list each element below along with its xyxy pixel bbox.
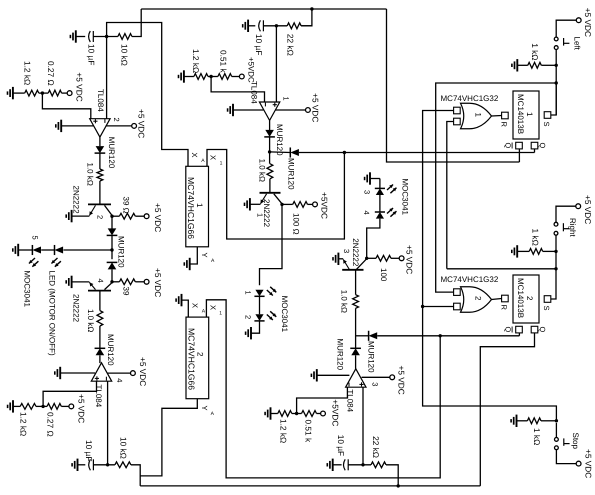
- op1 input signs: [93, 119, 105, 123]
- svg-text:1.0 kΩ: 1.0 kΩ: [86, 309, 95, 332]
- label pin1 op2: [281, 97, 290, 101]
- label MUR120 qline: [287, 158, 296, 190]
- wire Q3 collector down: [260, 204, 283, 285]
- svg-text:1: 1: [256, 213, 265, 217]
- emission arrows MOC2 LED2: [267, 311, 276, 320]
- wire to term bl: [61, 404, 73, 409]
- wire right switch S2 line: [447, 268, 556, 270]
- label +5VDC div op2: [247, 57, 256, 83]
- label pin2 Q1: [95, 215, 104, 219]
- IC MC14013B #2 box: [513, 275, 539, 323]
- svg-text:2: 2: [525, 296, 534, 301]
- resistor 0.27 (row bl): [47, 404, 61, 410]
- ground (op2): [228, 104, 264, 116]
- wire right switch down: [555, 235, 557, 268]
- LED A (MOC3041 pin5): [32, 245, 41, 255]
- wire cap to node bl: [93, 464, 115, 466]
- svg-text:Left: Left: [573, 37, 582, 51]
- wire S1 to switch: [551, 83, 556, 115]
- IC MC74VHC1G66 #1 box: [186, 166, 209, 247]
- emission arrows LED A: [29, 258, 38, 267]
- label pin3 Q4: [342, 249, 351, 253]
- label Right: [568, 218, 577, 237]
- wire op2 out: [269, 120, 271, 130]
- ground (10uF op4): [327, 459, 341, 471]
- ground (stop sw): [511, 415, 527, 427]
- op4 pin3 wire and terminal: [362, 375, 395, 380]
- label 1kOhm stop: [532, 428, 542, 445]
- node div op4 (dot): [292, 412, 302, 415]
- label MOC3041 mid: [280, 296, 289, 333]
- svg-text:MC74VHC1G66: MC74VHC1G66: [186, 328, 196, 390]
- label 1.2kOhm row1: [22, 61, 32, 85]
- wire S2 to switch: [551, 269, 556, 299]
- svg-text:MOC3041: MOC3041: [401, 179, 410, 216]
- svg-text:MC14013B: MC14013B: [516, 278, 525, 318]
- label 1kOhm right: [531, 229, 541, 246]
- node divider bl (dot): [36, 405, 47, 408]
- svg-text:1: 1: [195, 203, 204, 208]
- transistor Q4 2N2222 base bar: [342, 269, 363, 271]
- wire cap to node op4: [348, 464, 371, 466]
- node divider1 (dot): [39, 91, 48, 94]
- label 1.0kOhm Q2: [86, 309, 95, 332]
- label pin4 Q2: [96, 279, 105, 283]
- label X1 ic2: [208, 305, 222, 317]
- wire OR1A stop vertical: [423, 111, 557, 421]
- label 100 Q4: [379, 268, 388, 282]
- wire res to Q3 base: [269, 179, 271, 193]
- resistor 0.51k (op2 div): [218, 74, 232, 80]
- svg-text:X: X: [208, 305, 217, 310]
- svg-text:1.2 kΩ: 1.2 kΩ: [22, 61, 32, 85]
- label 10kOhm bl: [118, 437, 128, 459]
- wire left switch down: [555, 50, 557, 115]
- node Q1 collector (dot): [110, 215, 113, 218]
- label +5VDC op1: [137, 109, 147, 138]
- svg-text:4: 4: [115, 378, 124, 382]
- wire cap to node: [93, 36, 118, 38]
- op3 input signs: [95, 376, 107, 380]
- op1 pin2 wire and terminal: [106, 124, 137, 129]
- svg-text:5: 5: [31, 236, 40, 240]
- svg-text:R: R: [500, 305, 509, 311]
- ground (XA2): [176, 294, 181, 306]
- label 39Ohm rowA: [121, 197, 130, 214]
- svg-text:+5VDC: +5VDC: [320, 192, 330, 219]
- capacitor 10uF (op-amp U1A feedback): [89, 31, 94, 42]
- svg-text:1.2 kΩ: 1.2 kΩ: [191, 49, 201, 73]
- svg-text:MC14013B: MC14013B: [516, 94, 525, 134]
- wire 100 to term q3: [308, 202, 318, 207]
- label MUR120 op1: [107, 137, 116, 169]
- wire X1 pin ic2 route: [206, 300, 440, 478]
- Q3 collector: [274, 194, 282, 205]
- terminal +5VDC row1: [67, 91, 72, 96]
- label MC74VHC1G66 #2: [186, 328, 204, 390]
- wire div to op2 - input: [211, 77, 264, 103]
- LED2 MOC3041 mid: [254, 314, 264, 321]
- svg-text:MOC3041: MOC3041: [23, 271, 32, 308]
- wire 100 to term q4: [391, 256, 404, 261]
- Q3 emitter: [250, 194, 267, 205]
- svg-text:1.2 kΩ: 1.2 kΩ: [279, 419, 289, 443]
- svg-text:1: 1: [220, 161, 223, 167]
- label MC74VHC1G32 #2: [441, 275, 499, 284]
- ground (MOC2): [246, 327, 251, 339]
- resistor 1.0k (Q2 base): [97, 311, 103, 326]
- emission arrows LED B: [51, 258, 60, 267]
- svg-text:Q: Q: [503, 327, 512, 333]
- svg-text:4: 4: [362, 211, 371, 215]
- label +5VDC q3: [320, 192, 330, 219]
- label S ff2: [542, 306, 551, 311]
- ground (Q1 emitter): [66, 210, 71, 222]
- wire op2 + input: [275, 26, 277, 102]
- resistor 1k (right sw): [529, 249, 556, 255]
- svg-text:2: 2: [95, 215, 104, 219]
- Q1 collector: [105, 205, 113, 216]
- resistor 1.2k (row bl): [20, 404, 36, 410]
- label +5VDC op4: [396, 366, 406, 395]
- label pin1 Q3: [256, 213, 265, 217]
- label X1 pin ic1: [209, 155, 223, 167]
- ground (op4): [311, 369, 349, 381]
- resistor 39 (row A): [112, 213, 135, 219]
- svg-text:R: R: [500, 122, 509, 128]
- diode MUR120 (op1 out): [95, 146, 106, 153]
- wire divider to op1 + input: [42, 93, 90, 119]
- svg-text:2: 2: [195, 352, 204, 357]
- svg-text:Q: Q: [538, 143, 547, 149]
- label Qbar1: [503, 143, 512, 149]
- resistor 1k (left sw): [528, 62, 556, 68]
- label S ff1: [542, 122, 551, 127]
- label pin1 MOC2: [243, 291, 252, 295]
- pin square Qff2: [531, 326, 538, 333]
- wire res to diode q4: [355, 308, 357, 348]
- op3 pin4 wire and terminal: [108, 371, 136, 376]
- label +5VDC op3: [138, 357, 148, 386]
- node LED row (dot): [110, 248, 113, 251]
- label MUR120 LED chain: [116, 236, 125, 268]
- label MOC3041 left: [23, 271, 32, 308]
- ground (op1): [56, 120, 94, 132]
- svg-text:2: 2: [112, 118, 121, 122]
- wire YA2 route: [140, 399, 197, 476]
- label +5VDC rowB: [153, 268, 163, 297]
- label gate2 unit: [474, 296, 483, 301]
- diode MUR120 (op2 out): [264, 130, 275, 137]
- label pin2 MOC2: [243, 315, 252, 319]
- node S2 branch (dot): [554, 267, 557, 270]
- Q1 emitter: [72, 205, 96, 216]
- resistor 1.2k (row1): [25, 90, 39, 96]
- transistor Q1 2N2222 base bar: [88, 203, 111, 205]
- label +5VDC div op4: [330, 399, 340, 426]
- node Q4 collector (dot): [365, 257, 368, 260]
- svg-text:+5 VDC: +5 VDC: [76, 394, 86, 423]
- svg-text:1: 1: [281, 97, 290, 101]
- svg-text:1: 1: [243, 291, 252, 295]
- svg-text:+5 VDC: +5 VDC: [396, 366, 406, 395]
- wire res to diode: [99, 326, 101, 348]
- label 10kOhm: [120, 44, 130, 66]
- label MC74VHC1G66 #1: [186, 177, 204, 239]
- label 0.27Ohm row1: [46, 61, 56, 86]
- label +5VDC left sw: [583, 8, 593, 37]
- svg-text:10 µF: 10 µF: [336, 435, 346, 456]
- label MUR120 qbar2: [367, 341, 376, 373]
- pin square OR1 B: [454, 118, 461, 125]
- label 0.51k op2: [219, 50, 229, 73]
- svg-text:2N2222: 2N2222: [72, 294, 81, 323]
- svg-text:1 kΩ: 1 kΩ: [530, 43, 540, 60]
- wire XA1 pin label: [190, 153, 205, 165]
- wire Q1ff pin down: [534, 149, 536, 153]
- svg-text:X: X: [191, 303, 200, 308]
- label 2N2222 Q2: [72, 294, 81, 323]
- wire cap to node op2: [263, 25, 287, 27]
- wire bus x386 (top to Qbar1 line): [387, 9, 520, 162]
- label 1.2kOhm bl: [18, 412, 28, 436]
- node div op2 (dot): [208, 75, 218, 78]
- svg-text:+5 VDC: +5 VDC: [583, 449, 593, 478]
- resistor 22k (op4): [371, 462, 386, 468]
- ground (0.51k divider): [179, 70, 194, 82]
- capacitor 10uF (op3): [89, 459, 94, 470]
- svg-text:100: 100: [379, 268, 388, 282]
- label YA2: [200, 406, 215, 418]
- ground (YA1): [184, 258, 189, 270]
- label MOC3041 right: [401, 179, 410, 216]
- svg-text:2: 2: [474, 296, 483, 301]
- label LED MOTOR: [48, 271, 57, 357]
- ground (Q4 emitter): [333, 253, 338, 265]
- node op4 + cap (dot): [361, 463, 364, 466]
- wire diode to LED node: [111, 235, 113, 250]
- label pin3 MOC3: [362, 190, 371, 194]
- wire div to term op4: [317, 411, 326, 416]
- svg-text:LED (MOTOR ON/OFF): LED (MOTOR ON/OFF): [48, 271, 57, 357]
- ground (10uF cap, top left): [70, 30, 85, 42]
- wire X1 pin 1 route: [207, 150, 344, 240]
- pin square R1: [502, 112, 509, 119]
- svg-text:+5VDC: +5VDC: [330, 399, 340, 426]
- wire diode to Q3 node: [269, 137, 271, 152]
- wire diode to res: [99, 153, 101, 169]
- label +5VDC stop: [583, 449, 593, 478]
- pin square S2: [544, 296, 551, 303]
- op2 input signs: [265, 103, 277, 107]
- node stop 1k (dot): [555, 419, 558, 422]
- svg-text:Stop: Stop: [571, 433, 580, 450]
- svg-text:MC74VHC1G32: MC74VHC1G32: [441, 94, 499, 103]
- svg-text:22 kΩ: 22 kΩ: [286, 34, 296, 56]
- label 1.0kOhm Q1: [86, 163, 95, 186]
- label MC74VHC1G32 #1: [441, 94, 499, 103]
- svg-text:10 kΩ: 10 kΩ: [118, 437, 128, 459]
- or-gate U2 1: [461, 103, 492, 129]
- transistor Q3 2N2222 base bar: [260, 192, 281, 194]
- wire diode to op3: [99, 355, 101, 363]
- Q2 collector: [105, 282, 113, 290]
- label pin4 MOC3: [362, 211, 371, 215]
- label 1.2kOhm op4: [279, 419, 289, 443]
- svg-text:1: 1: [474, 113, 483, 118]
- svg-text:1.0 kΩ: 1.0 kΩ: [86, 163, 95, 186]
- label 100Ohm Q3: [292, 213, 301, 235]
- resistor 1.2k (op4 div): [278, 411, 292, 417]
- Q4 collector: [356, 258, 366, 269]
- svg-text:1 kΩ: 1 kΩ: [531, 229, 541, 246]
- wire diode to op4: [355, 355, 357, 369]
- ground (10uF op2): [243, 20, 256, 32]
- wire Q2 base down: [99, 291, 101, 311]
- ground (1.2k divider row bottom-left): [8, 400, 21, 412]
- label +5VDC right sw: [583, 195, 593, 224]
- terminal +5VDC right switch: [576, 204, 581, 209]
- wire res to Q1 base: [99, 181, 101, 204]
- or-gate U2 2: [461, 287, 492, 313]
- pin square Qbar2: [516, 326, 523, 333]
- wire Q4 base down: [355, 270, 357, 295]
- svg-text:3: 3: [362, 190, 371, 194]
- pin square S1: [544, 112, 551, 119]
- label 2N2222 Q3: [262, 199, 271, 228]
- IC MC74VHC1G66 #2 box: [186, 317, 209, 399]
- svg-text:+5VDC: +5VDC: [247, 57, 256, 83]
- label MC14013B #2: [516, 278, 534, 318]
- wire 39B to term: [135, 279, 149, 284]
- wire OR2 out: [492, 299, 502, 300]
- svg-text:TL084: TL084: [249, 81, 258, 104]
- wire LED4 to Q4 collector: [367, 219, 380, 259]
- resistor 0.51k (op4 div): [302, 411, 317, 417]
- pin square OR1 A: [454, 107, 461, 114]
- wire LED row: [63, 249, 112, 251]
- svg-text:+5 VDC: +5 VDC: [137, 109, 147, 138]
- wire Qbar2 line: [377, 335, 519, 337]
- pin square Qbar1: [516, 142, 523, 149]
- wire bus to 22k: [301, 9, 312, 26]
- IC MC14013B #1 box: [513, 91, 539, 139]
- label 10uF op4: [336, 435, 346, 456]
- svg-text:+5 VDC: +5 VDC: [138, 357, 148, 386]
- node OR2B stop (dot): [421, 305, 424, 308]
- svg-text:S: S: [542, 122, 551, 127]
- capacitor 10uF (op4): [344, 459, 349, 470]
- svg-text:X: X: [209, 155, 218, 160]
- wire Qbar2 pin down: [518, 333, 520, 336]
- node op2 + (dot): [275, 24, 278, 27]
- node Q2 collector (dot): [110, 280, 113, 283]
- resistor 100 (Q4): [367, 255, 391, 261]
- resistor 0.27 (row1): [48, 90, 61, 96]
- label Left: [573, 37, 582, 51]
- label 22kOhm op4: [371, 436, 381, 458]
- pin square OR2 B: [454, 303, 461, 310]
- switch Right: [554, 222, 569, 235]
- svg-text:MUR120: MUR120: [367, 341, 376, 373]
- wire YA1 to ground: [190, 247, 198, 264]
- label TL084 op3: [94, 385, 103, 408]
- wire OR2B: [423, 306, 454, 308]
- svg-text:10 µF: 10 µF: [87, 44, 97, 65]
- wire Q2ff route: [480, 333, 534, 486]
- label MUR120 op2: [275, 124, 284, 156]
- ground (1.2k divider row1): [8, 87, 25, 99]
- svg-text:1: 1: [525, 112, 534, 117]
- svg-text:+5 VDC: +5 VDC: [153, 268, 163, 297]
- node left sw 1k (dot): [555, 64, 558, 67]
- resistor 1k (stop sw): [527, 418, 556, 424]
- label pin2 op1: [112, 118, 121, 122]
- label +5VDC row1: [75, 72, 85, 101]
- node 22k bus (dot): [397, 484, 400, 487]
- label +5VDC bl: [76, 394, 86, 423]
- wire 10k to top bus: [132, 9, 141, 37]
- resistor 1.0k (Q4 base): [353, 295, 359, 309]
- label MC14013B #1: [516, 94, 534, 134]
- Q2 emitter: [72, 282, 96, 290]
- svg-text:MC74VHC1G66: MC74VHC1G66: [186, 177, 196, 239]
- diode MUR120 down (LED chain): [107, 228, 118, 235]
- wire term to right switch: [556, 206, 576, 222]
- wire bottom bus: [140, 485, 480, 487]
- node op1 inverting (dot): [105, 35, 108, 38]
- resistor 1.0k (Q3 base): [267, 152, 273, 179]
- svg-text:4: 4: [96, 279, 105, 283]
- node Q line to X1 loop (dot): [343, 151, 346, 154]
- LED4 MOC3041 right: [375, 195, 385, 219]
- wire OR1B vertical: [447, 122, 454, 269]
- wire stop to term: [556, 450, 581, 466]
- svg-text:+5 VDC: +5 VDC: [153, 203, 163, 232]
- ground (op3): [55, 367, 95, 379]
- svg-text:MUR120: MUR120: [106, 334, 115, 366]
- svg-text:10 µF: 10 µF: [84, 440, 94, 461]
- svg-text:MOC3041: MOC3041: [280, 296, 289, 333]
- LED B (MOC3041 input): [55, 245, 64, 255]
- label TL084 op1: [96, 89, 105, 112]
- wire top bus: [141, 8, 386, 10]
- svg-text:39: 39: [121, 287, 130, 296]
- op2 pin1 wire and terminal: [276, 108, 311, 113]
- wire 39A to term: [135, 214, 149, 219]
- svg-text:10 µF: 10 µF: [254, 34, 264, 55]
- wire op4 + input: [362, 387, 364, 465]
- label TL084 op2: [249, 81, 258, 104]
- label 10uF op2: [254, 34, 264, 55]
- diode MUR120 horizontal (Q line): [270, 147, 299, 157]
- svg-text:3: 3: [342, 249, 351, 253]
- wire op1 inv loop: [107, 23, 188, 167]
- svg-text:Y: Y: [200, 406, 209, 411]
- pin square Qff1: [531, 142, 538, 149]
- label 2N2222 Q4: [351, 238, 360, 267]
- diode MUR120 up (LED chain): [107, 250, 118, 269]
- pin square R2: [502, 295, 509, 302]
- node Qbar2 to bottom loop (dot): [439, 334, 442, 337]
- wire Qbar2 line left: [356, 335, 369, 337]
- resistor 22k (op2): [287, 23, 301, 29]
- switch Left: [554, 37, 569, 49]
- emission arrows MOC3 LED4: [387, 208, 396, 217]
- label 2N2222 Q1: [72, 186, 81, 215]
- wire op4 - input: [297, 387, 348, 413]
- op-amp U1C TL084 (bottom center): [346, 369, 366, 387]
